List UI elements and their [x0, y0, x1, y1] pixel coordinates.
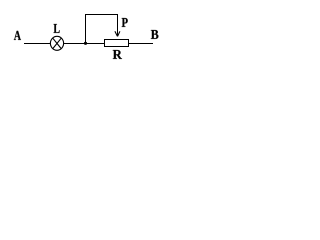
wiper arrowhead left barb — [115, 31, 118, 36]
wiper arrowhead right barb — [118, 31, 120, 36]
wiper label P — [122, 18, 128, 27]
wiper stem — [117, 14, 119, 37]
wire main A to B (row 43) — [24, 43, 153, 45]
lamp X stroke 2 — [53, 38, 61, 48]
lamp label L — [54, 24, 60, 33]
resistor R body — [105, 40, 129, 47]
node label B — [151, 30, 159, 39]
node label A — [14, 31, 21, 40]
lamp X stroke 1 — [53, 38, 61, 48]
lamp L circle — [50, 36, 63, 50]
resistor label R — [113, 50, 122, 59]
top wire — [85, 14, 118, 16]
junction node — [84, 42, 87, 45]
wire up from junction — [85, 14, 87, 44]
